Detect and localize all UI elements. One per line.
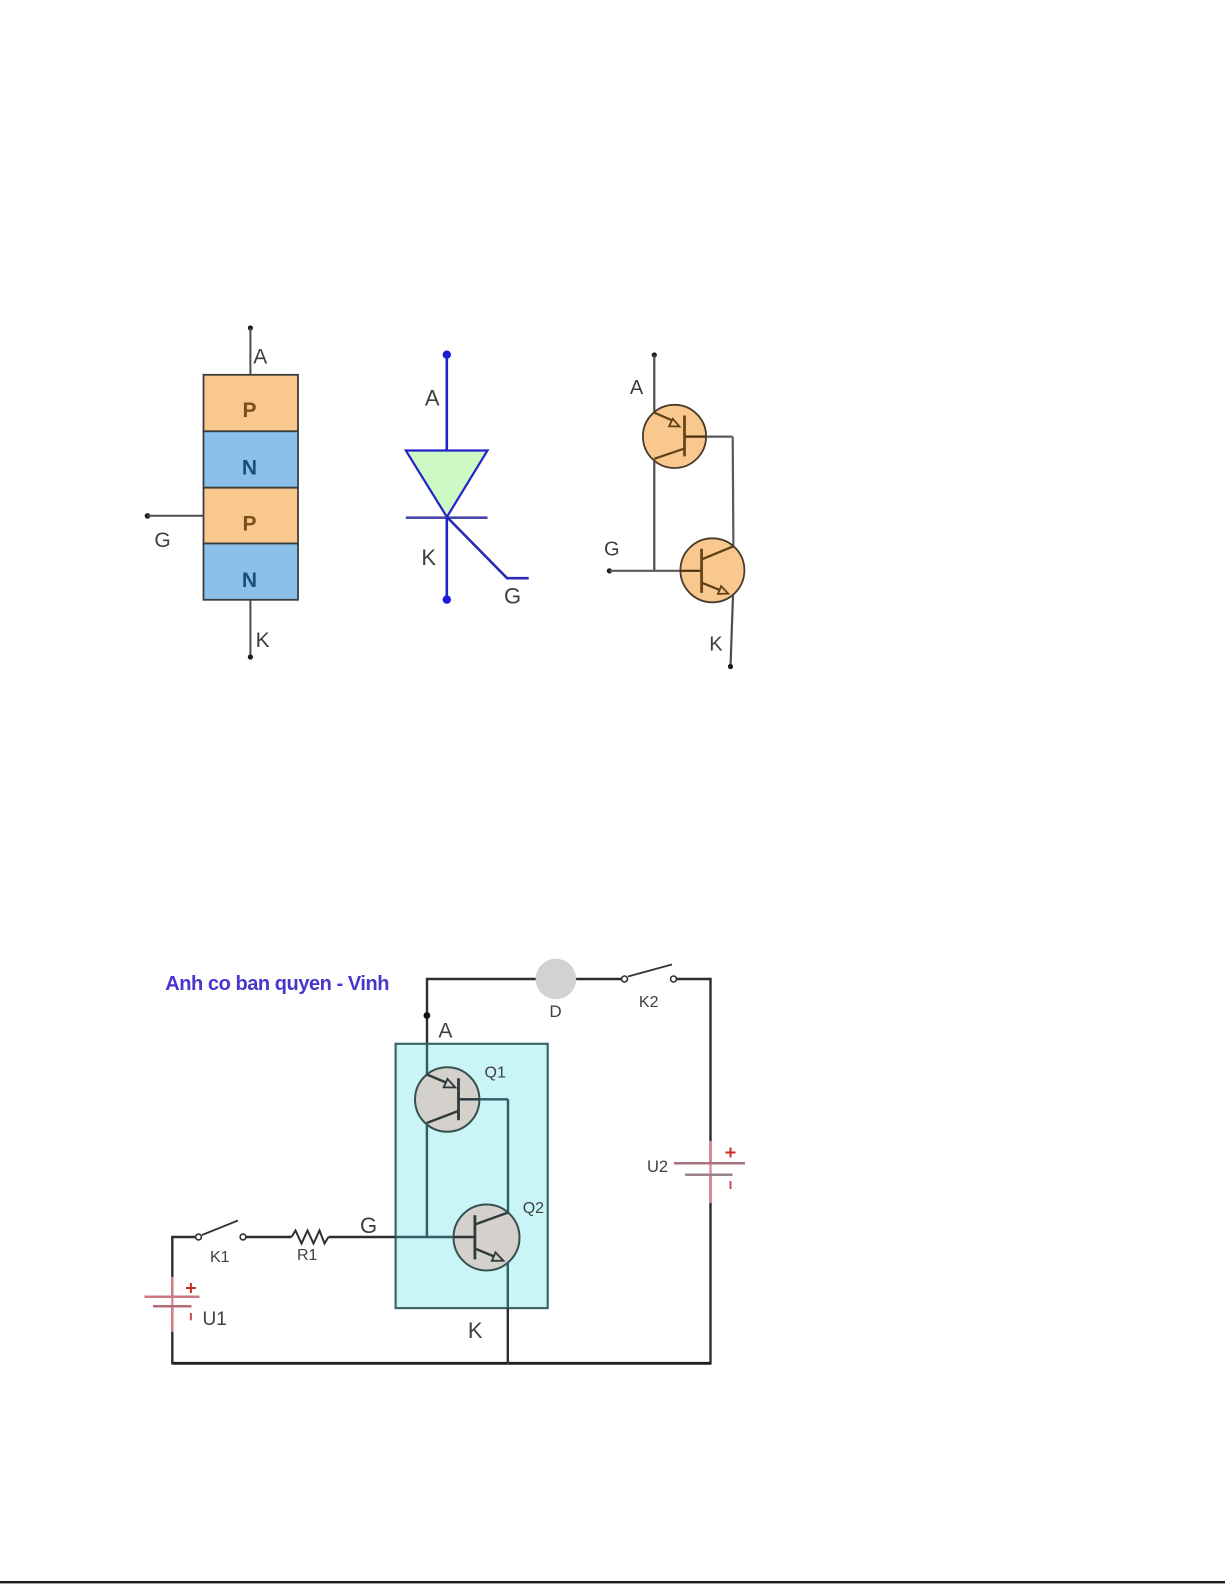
switch K2 contact 1 xyxy=(622,976,628,982)
svg-text:Q2: Q2 xyxy=(523,1200,544,1217)
node A terminal dot xyxy=(652,352,657,357)
svg-text:P: P xyxy=(242,513,256,536)
battery U1 negative plate xyxy=(153,1305,191,1307)
wire R1 to box xyxy=(329,1236,396,1238)
svg-text:A: A xyxy=(425,386,440,411)
wire cathode below box to bottom rail xyxy=(507,1308,509,1365)
wire A inside box to Q1 xyxy=(426,1044,428,1075)
battery U1 positive plate xyxy=(145,1295,200,1297)
transistor Q-top emitter with arrow xyxy=(654,413,671,421)
svg-text:K: K xyxy=(468,1318,483,1343)
wire Q-top base to right rail xyxy=(686,436,707,438)
svg-text:K: K xyxy=(256,629,270,652)
switch K1: wire from left rail xyxy=(172,1236,195,1238)
diode triangle xyxy=(406,451,488,518)
svg-text:N: N xyxy=(242,456,257,479)
transistor Q1 emitter with arrow xyxy=(427,1075,446,1083)
transistor Q2 body xyxy=(454,1205,520,1271)
battery U2 positive plate xyxy=(674,1162,745,1164)
gate lead xyxy=(447,517,529,578)
svg-text:U1: U1 xyxy=(203,1309,227,1330)
wire gate inside box to Q2 base xyxy=(396,1236,454,1238)
node G terminal dot xyxy=(607,568,612,573)
node A terminal dot (blue) xyxy=(443,351,451,359)
wire right rail down to Q-bottom collector xyxy=(732,437,735,547)
transistor Q-bottom base bar xyxy=(681,570,702,572)
transistor Q-top base bar xyxy=(683,416,686,457)
svg-text:U2: U2 xyxy=(647,1158,668,1176)
bottom page rule xyxy=(0,1581,1225,1583)
node K terminal dot xyxy=(248,654,253,659)
wire Q1 base to right inner rail xyxy=(459,1098,480,1100)
node K terminal dot (blue) xyxy=(443,595,451,603)
wire left rail lower xyxy=(171,1307,173,1365)
wire Q1 collector down to gate junction xyxy=(426,1123,428,1237)
switch K1 contact 1 xyxy=(196,1234,202,1240)
wire top rail xyxy=(427,978,625,980)
svg-text:R1: R1 xyxy=(297,1247,318,1264)
wire cathode inside box xyxy=(507,1262,509,1308)
transistor Q2 base bar xyxy=(454,1236,475,1238)
P layer 2 xyxy=(204,488,299,544)
svg-text:A: A xyxy=(630,377,644,399)
battery U2 minus tick xyxy=(730,1181,732,1189)
wire from K2 to right rail corner xyxy=(677,978,711,980)
SCR equivalent box (cyan) xyxy=(396,1044,548,1308)
wire right inner rail down xyxy=(507,1099,509,1212)
svg-text:K1: K1 xyxy=(210,1249,230,1266)
svg-text:Anh co ban quyen - Vinh: Anh co ban quyen - Vinh xyxy=(165,973,389,995)
transistor Q-bottom collector xyxy=(702,546,734,559)
transistor Q-bottom (NPN) body xyxy=(680,538,744,602)
svg-text:G: G xyxy=(154,529,170,552)
transistor Q-bottom emitter with arrow xyxy=(702,583,721,591)
svg-text:A: A xyxy=(253,346,267,369)
svg-text:G: G xyxy=(360,1213,377,1238)
battery U2 negative plate xyxy=(685,1173,733,1175)
wire Q-top collector down to gate node xyxy=(653,460,655,571)
wire right rail upper xyxy=(709,978,711,1163)
N layer 2 xyxy=(204,544,299,600)
transistor Q2 collector xyxy=(475,1213,508,1225)
svg-text:D: D xyxy=(549,1002,561,1021)
battery U1 red overlay on wire xyxy=(171,1277,173,1332)
wire anode lead xyxy=(249,328,251,375)
wire K1 to R1 xyxy=(246,1236,292,1238)
wire cathode down xyxy=(731,596,734,667)
wire anode drop (A) xyxy=(426,978,428,1044)
svg-text:Q1: Q1 xyxy=(485,1065,506,1082)
wire right rail lower xyxy=(709,1175,711,1365)
svg-text:K: K xyxy=(709,634,723,656)
P layer 1 xyxy=(204,375,299,432)
node G terminal dot xyxy=(145,513,151,519)
node A junction dot xyxy=(424,1012,431,1019)
switch K2 contact 2 xyxy=(671,976,677,982)
battery U2 positive overlay (red tint) xyxy=(709,1141,711,1203)
wire gate lead xyxy=(609,570,680,572)
lamp D xyxy=(536,959,577,1000)
svg-text:G: G xyxy=(504,584,521,609)
transistor Q1 base bar xyxy=(457,1078,460,1120)
svg-text:P: P xyxy=(242,399,256,422)
node K terminal dot xyxy=(728,664,733,669)
switch K2 blade xyxy=(628,965,672,977)
svg-text:K: K xyxy=(421,545,436,570)
transistor Q-top (PNP) body xyxy=(643,405,706,468)
svg-text:N: N xyxy=(242,569,257,592)
battery U1 plus sign xyxy=(186,1283,196,1293)
svg-text:A: A xyxy=(438,1020,452,1043)
transistor Q-top collector xyxy=(654,449,684,459)
svg-text:K2: K2 xyxy=(639,994,659,1011)
wire cathode lead xyxy=(249,600,251,657)
N layer 1 xyxy=(204,431,299,487)
svg-text:G: G xyxy=(604,538,620,560)
switch K1 contact 2 xyxy=(240,1234,246,1240)
wire anode (blue) xyxy=(445,355,448,451)
battery U2 plus sign xyxy=(726,1148,736,1158)
transistor Q2 emitter with arrow xyxy=(475,1249,495,1257)
wire left rail upper xyxy=(171,1236,173,1297)
wire bottom rail xyxy=(172,1362,710,1365)
wire cathode (blue) xyxy=(445,517,448,600)
wire anode down to Q1 xyxy=(653,355,655,414)
resistor R1 xyxy=(292,1231,329,1244)
wire gate lead xyxy=(147,515,203,517)
gate crossbar xyxy=(406,516,488,519)
switch K1 blade xyxy=(202,1221,238,1236)
transistor Q1 collector xyxy=(427,1111,459,1123)
node A terminal dot xyxy=(248,325,253,330)
battery U1 minus tick xyxy=(190,1313,192,1320)
transistor Q1 body xyxy=(415,1067,479,1131)
